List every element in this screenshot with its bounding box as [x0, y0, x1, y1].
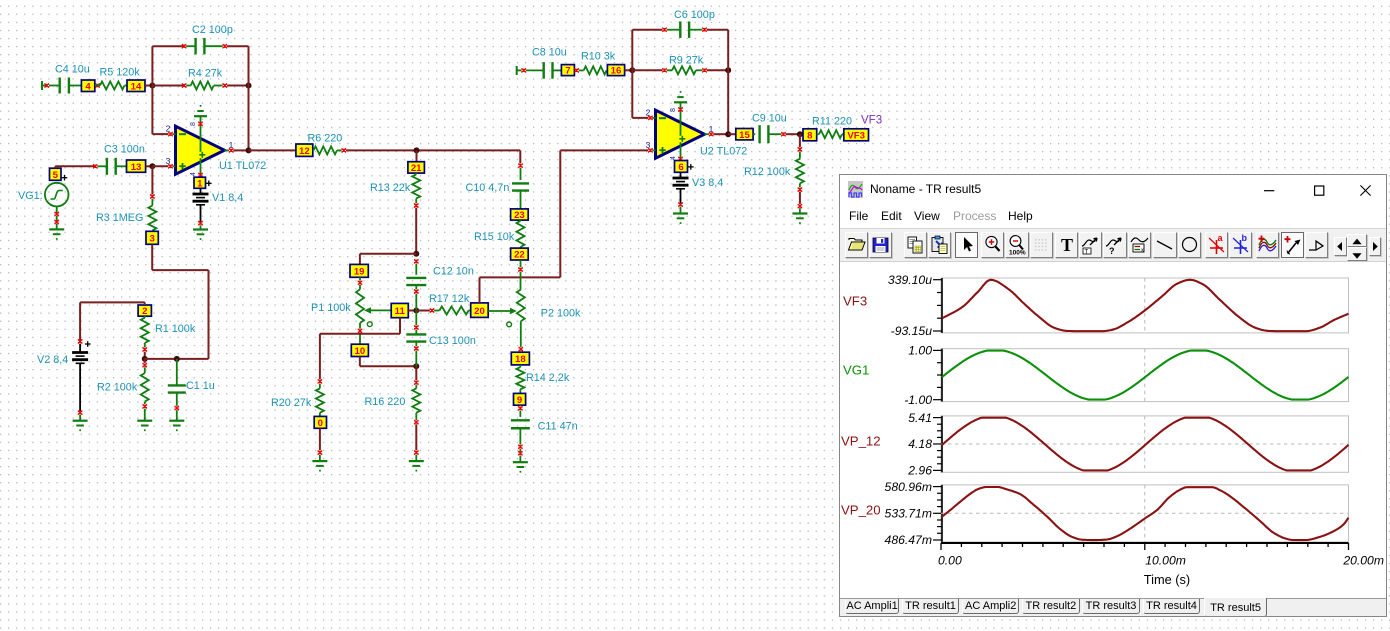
- svg-text:20: 20: [474, 306, 485, 317]
- wire junction H down to U2 output: [727, 70, 729, 134]
- curve VF3: [942, 279, 1348, 330]
- svg-text:R1 100k: R1 100k: [155, 323, 196, 335]
- toolbar cursor select button: [955, 232, 978, 258]
- x axis: [941, 543, 1348, 550]
- x axis title Time (s): [1144, 571, 1190, 586]
- wire C2 feedback loop left: [152, 46, 184, 85]
- capacitor C12 10n: [406, 259, 474, 310]
- svg-text:6: 6: [678, 162, 683, 173]
- svg-text:1: 1: [197, 178, 203, 189]
- U1 negative supply to node 1: [190, 162, 203, 177]
- svg-text:4: 4: [190, 172, 197, 176]
- svg-text:7: 7: [565, 66, 570, 77]
- svg-text:533.71m: 533.71m: [885, 506, 932, 520]
- toolbar probe button selected: [1281, 232, 1304, 258]
- svg-text:5: 5: [53, 170, 59, 181]
- svg-text:18: 18: [515, 354, 526, 365]
- svg-text:VG1: VG1: [843, 362, 869, 377]
- toolbar axis query button: [1103, 232, 1126, 258]
- capacitor C2 100p: [182, 24, 233, 54]
- wire junction C to U1 pin 3: [152, 165, 168, 167]
- svg-text:1.00: 1.00: [908, 343, 932, 357]
- resistor R5 120k: [95, 66, 141, 89]
- ground below V1: [193, 230, 208, 240]
- junction I: [797, 131, 803, 137]
- TR result window frame: [839, 174, 1387, 618]
- node 5: [50, 168, 68, 181]
- wire junction D to node 19: [360, 254, 416, 265]
- toolbar axis pen button: [1079, 232, 1102, 258]
- ground below C11: [513, 462, 528, 472]
- svg-text:C3 100n: C3 100n: [104, 144, 145, 156]
- toolbar prev curve button: [1334, 237, 1346, 256]
- curve VG1: [942, 350, 1348, 399]
- ground below V3: [673, 214, 688, 224]
- junction E: [413, 308, 419, 314]
- svg-text:339.10u: 339.10u: [888, 272, 932, 286]
- menu item View: [914, 209, 940, 223]
- resistor R3 1MEG: [96, 166, 156, 230]
- svg-text:20.00m: 20.00m: [1342, 553, 1384, 567]
- ground below R16: [409, 461, 424, 471]
- U1 pin 1 output: [225, 140, 249, 153]
- svg-text:R15 10k: R15 10k: [474, 231, 515, 243]
- svg-text:VF3: VF3: [847, 130, 865, 141]
- junction U2 output: [725, 131, 731, 137]
- node 6: [675, 161, 694, 174]
- node 4: [81, 80, 94, 92]
- ground below R12: [792, 214, 807, 224]
- signal name VF3: [843, 293, 867, 308]
- svg-text:VP_12: VP_12: [841, 433, 881, 448]
- curve VP_20: [942, 487, 1348, 540]
- node 19: [350, 264, 368, 277]
- svg-text:3: 3: [149, 233, 154, 244]
- svg-text:5.41: 5.41: [908, 410, 932, 424]
- svg-text:R6 220: R6 220: [308, 132, 343, 144]
- tab TR result4: [1143, 599, 1200, 615]
- signal name VG1: [843, 362, 869, 377]
- svg-text:U1 TL072: U1 TL072: [219, 160, 266, 172]
- wire R13 to junction D: [415, 208, 417, 254]
- svg-text:9: 9: [517, 395, 522, 406]
- tab TR result5 active: [1204, 598, 1267, 617]
- svg-text:R4 27k: R4 27k: [188, 67, 223, 79]
- svg-text:11: 11: [395, 306, 406, 317]
- svg-text:P1 100k: P1 100k: [311, 302, 351, 314]
- svg-text:580.96m: 580.96m: [885, 479, 932, 493]
- svg-text:R11 220: R11 220: [812, 115, 852, 127]
- battery V1 8,4: [193, 188, 244, 229]
- tab TR result2: [1022, 599, 1080, 615]
- capacitor C3 100n: [93, 144, 145, 175]
- node 3: [146, 231, 158, 244]
- wire node3 to R1 net: [152, 244, 208, 359]
- junction A: [149, 83, 155, 89]
- plot frame VP_12: [933, 415, 1348, 471]
- svg-text:R3 1MEG: R3 1MEG: [96, 212, 143, 224]
- toolbar grid button disabled: [1030, 232, 1053, 258]
- node 2: [138, 305, 151, 317]
- junction R1 R2: [142, 356, 148, 362]
- wire node2 to V2: [80, 302, 145, 341]
- svg-text:C1 1u: C1 1u: [186, 380, 215, 392]
- svg-text:8: 8: [670, 108, 677, 112]
- plot client area: [840, 262, 1386, 599]
- y axis labels VP_12: [907, 410, 932, 477]
- toolbar open folder button: [845, 232, 868, 258]
- wire C2 feedback loop right: [227, 46, 249, 85]
- toolbar cursor a button: [1205, 232, 1228, 258]
- potentiometer P1 100k: [311, 277, 391, 326]
- U2 pin 3 number: [646, 140, 656, 153]
- svg-text:C2 100p: C2 100p: [192, 24, 233, 36]
- junction F: [413, 363, 419, 369]
- resistor R9 27k: [662, 54, 706, 74]
- svg-text:-1.00: -1.00: [904, 392, 932, 406]
- toolbar spin up button: [1347, 234, 1367, 248]
- node 20: [471, 303, 489, 318]
- wire junction A down to U1 pin 2: [152, 86, 168, 135]
- capacitor C4 10u: [42, 64, 90, 94]
- svg-text:-93.15u: -93.15u: [891, 324, 933, 338]
- node 21: [408, 162, 425, 174]
- capacitor C9 10u: [752, 113, 787, 144]
- node 11: [391, 303, 408, 317]
- toolbar save button: [869, 232, 892, 258]
- window icon: [848, 181, 863, 198]
- node 13: [127, 160, 146, 173]
- junction C: [149, 163, 155, 169]
- label VF3 purple: [861, 115, 882, 127]
- resistor R12 100k: [744, 134, 804, 213]
- node 22: [511, 248, 529, 261]
- output node VF3: [844, 129, 869, 142]
- toolbar zoom 100% button: [1005, 232, 1028, 258]
- svg-text:C12 10n: C12 10n: [433, 266, 474, 278]
- wire U1 output to node 12: [249, 149, 296, 151]
- capacitor C13 100n: [406, 311, 476, 367]
- resistor R13 22k: [370, 173, 420, 208]
- toolbar curves button: [1256, 232, 1279, 258]
- wire node16 to junction G: [625, 69, 633, 71]
- node 18: [511, 352, 529, 365]
- resistor R11 220: [812, 115, 852, 138]
- svg-text:U2 TL072: U2 TL072: [700, 145, 747, 157]
- svg-text:R2 100k: R2 100k: [97, 382, 138, 394]
- svg-text:V1 8,4: V1 8,4: [212, 192, 243, 204]
- svg-text:14: 14: [131, 81, 142, 92]
- svg-text:R5 120k: R5 120k: [100, 66, 141, 78]
- svg-text:15: 15: [739, 130, 750, 141]
- wire junction B down to U1 output: [248, 86, 250, 151]
- wire R6 to C10 corner: [346, 149, 520, 151]
- wire C9 to junction I: [786, 133, 800, 135]
- battery V3 8,4: [673, 172, 724, 213]
- U2 pin 1 output: [705, 124, 729, 137]
- signal name VP_12: [841, 433, 881, 448]
- U1 pin 3 number: [166, 156, 176, 169]
- U2 negative supply to node 6: [670, 146, 683, 161]
- wire junction down to node 21: [416, 150, 418, 161]
- svg-text:16: 16: [611, 66, 622, 77]
- junction C1 top: [174, 356, 180, 362]
- node 15: [736, 129, 753, 141]
- y axis labels VF3: [888, 272, 932, 337]
- wire U2 output to node 15: [728, 133, 736, 135]
- y axis labels VP_20: [885, 479, 932, 546]
- potentiometer P2 100k: [488, 260, 581, 327]
- wire R1 bottom to C1: [145, 358, 177, 360]
- wire node13 to junction C: [146, 165, 153, 167]
- svg-text:R9 27k: R9 27k: [669, 54, 704, 66]
- resistor R15 10k: [474, 220, 525, 248]
- plot frame VG1: [933, 348, 1348, 401]
- capacitor C6 100p: [662, 9, 715, 38]
- svg-text:4: 4: [85, 81, 91, 92]
- svg-text:0: 0: [318, 418, 323, 429]
- junction G: [629, 67, 635, 73]
- node 1: [194, 177, 212, 189]
- svg-text:R17 12k: R17 12k: [429, 293, 470, 305]
- svg-text:C11 47n: C11 47n: [538, 421, 578, 433]
- ground below V2: [73, 421, 88, 431]
- window title bar: [840, 175, 1386, 205]
- svg-text:486.47m: 486.47m: [885, 533, 932, 547]
- window title text: [870, 182, 981, 196]
- toolbar zoom in button: [981, 232, 1004, 258]
- wire node10 to junction F: [360, 357, 416, 367]
- tab bar: [840, 598, 1386, 616]
- node 9: [514, 393, 526, 406]
- resistor R16 220: [365, 366, 421, 461]
- svg-text:R14 2,2k: R14 2,2k: [526, 372, 570, 384]
- U2 positive supply symbol: [670, 91, 687, 122]
- wire VG1 to C3: [55, 166, 95, 168]
- junction node 21 rail: [414, 147, 420, 153]
- svg-text:V2 8,4: V2 8,4: [37, 354, 68, 366]
- wire R4 to junction B: [227, 85, 249, 87]
- node 0: [314, 416, 326, 429]
- node 16: [607, 65, 624, 77]
- svg-text:4: 4: [670, 156, 677, 160]
- svg-text:VG1:: VG1:: [18, 190, 43, 202]
- svg-text:8: 8: [190, 122, 197, 126]
- node 8: [803, 129, 817, 142]
- ground below C1: [169, 421, 184, 431]
- tab AC Ampli2: [962, 599, 1020, 615]
- resistor R6 220: [308, 132, 347, 154]
- node 14: [127, 80, 145, 92]
- resistor R4 27k: [182, 67, 227, 89]
- resistor R2 100k: [97, 359, 149, 421]
- U2 pin 2 number: [646, 108, 656, 121]
- toolbar spin down button: [1347, 247, 1367, 261]
- svg-text:P2 100k: P2 100k: [541, 307, 581, 319]
- svg-text:2.96: 2.96: [907, 463, 932, 477]
- svg-text:2: 2: [142, 306, 147, 317]
- svg-text:22: 22: [514, 250, 525, 261]
- tab TR result3: [1082, 599, 1140, 615]
- toolbar paste button: [928, 232, 951, 258]
- capacitor C1 1u: [168, 359, 215, 421]
- wire P2 bottom to node 18: [519, 321, 523, 352]
- node 23: [511, 209, 529, 221]
- U1 pin 2 number: [166, 124, 176, 137]
- menu item Edit: [881, 209, 902, 223]
- toolbar ellipse tool button: [1178, 232, 1201, 258]
- U1 positive supply symbol: [190, 105, 207, 138]
- junction B: [246, 83, 252, 89]
- resistor R1 100k: [141, 316, 196, 359]
- ground below R2: [137, 421, 152, 431]
- svg-text:R12 100k: R12 100k: [744, 166, 791, 178]
- menu bar: [840, 204, 1386, 229]
- svg-text:0.00: 0.00: [938, 553, 962, 567]
- toolbar text tool button: [1055, 232, 1078, 258]
- tab TR result1: [902, 599, 960, 615]
- ground below R20: [312, 461, 327, 471]
- menu item Process: [953, 209, 996, 223]
- capacitor C10 4,7n: [466, 150, 530, 209]
- wire node20 up to U2 pin3 net: [480, 150, 649, 303]
- x axis labels: [938, 553, 1384, 567]
- svg-text:V3 8,4: V3 8,4: [692, 177, 723, 189]
- capacitor C11 47n: [511, 405, 578, 462]
- wire junction A to R4: [152, 85, 184, 87]
- resistor R17 12k: [416, 293, 470, 315]
- plot frame VP_20: [933, 484, 1348, 541]
- close button: [1360, 175, 1371, 204]
- node 12: [296, 144, 313, 157]
- junction D: [413, 251, 419, 257]
- toolbar: [840, 229, 1386, 262]
- battery V2 8,4: [37, 339, 91, 421]
- y axis labels VG1: [904, 343, 932, 406]
- signal name VP_20: [841, 502, 881, 517]
- ground below VG1: [49, 229, 64, 239]
- svg-text:23: 23: [514, 210, 525, 221]
- node 10: [351, 344, 368, 357]
- capacitor C8 10u: [517, 46, 567, 78]
- svg-text:C4 10u: C4 10u: [55, 64, 90, 76]
- toolbar cursor b button: [1229, 232, 1252, 258]
- svg-text:VF3: VF3: [843, 293, 867, 308]
- resistor R14 2,2k: [516, 365, 569, 394]
- menu item Help: [1008, 209, 1033, 223]
- toolbar legend button: [1128, 232, 1151, 258]
- maximize button: [1314, 175, 1325, 204]
- svg-text:4.18: 4.18: [908, 437, 932, 451]
- minimize button: [1264, 175, 1275, 204]
- toolbar next curve button: [1369, 237, 1381, 256]
- svg-text:C6 100p: C6 100p: [674, 9, 715, 21]
- svg-text:10: 10: [355, 346, 366, 357]
- svg-text:12: 12: [299, 146, 310, 157]
- menu item File: [849, 209, 868, 223]
- wire junction G to R9: [632, 69, 662, 71]
- op-amp U1 TL072: [176, 126, 267, 174]
- svg-text:10.00m: 10.00m: [1145, 553, 1186, 567]
- svg-text:C8 10u: C8 10u: [532, 46, 567, 58]
- svg-text:21: 21: [411, 163, 422, 174]
- wire node0 to ground: [318, 428, 322, 461]
- wire junction G down to U2 pin 2: [632, 70, 648, 118]
- svg-text:R13 22k: R13 22k: [370, 182, 411, 194]
- op-amp U2 TL072: [656, 110, 748, 158]
- svg-text:8: 8: [807, 130, 813, 141]
- toolbar copy button: [904, 232, 927, 258]
- curve VP_12: [942, 417, 1348, 470]
- wire C6 feedback loop: [632, 30, 728, 71]
- svg-text:C13 100n: C13 100n: [429, 335, 476, 347]
- wire R9 to junction H: [707, 69, 729, 71]
- svg-text:19: 19: [354, 266, 365, 277]
- plot frame VF3: [933, 278, 1348, 333]
- svg-text:R16 220: R16 220: [365, 396, 406, 408]
- svg-text:C9 10u: C9 10u: [752, 113, 787, 125]
- node 7: [561, 65, 574, 77]
- svg-text:R20 27k: R20 27k: [271, 397, 312, 409]
- resistor R20 27k: [271, 379, 324, 416]
- wire node11 to junction E: [408, 310, 416, 312]
- svg-text:R10 3k: R10 3k: [581, 50, 616, 62]
- resistor R10 3k: [574, 50, 615, 74]
- svg-text:13: 13: [131, 162, 142, 173]
- wire node14 to junction: [145, 85, 152, 87]
- svg-text:C10 4,7n: C10 4,7n: [466, 182, 510, 194]
- toolbar line tool button: [1153, 232, 1176, 258]
- toolbar slope marker button: [1305, 232, 1328, 258]
- wire P1 bottom to node 10: [358, 323, 362, 344]
- svg-text:VP_20: VP_20: [841, 502, 881, 517]
- wire node11 to R20: [320, 318, 400, 379]
- voltage generator VG1: [18, 183, 69, 230]
- junction U1 output: [246, 147, 252, 153]
- svg-text:Time (s): Time (s): [1144, 571, 1190, 586]
- junction H: [725, 67, 731, 73]
- svg-text:VF3: VF3: [861, 115, 882, 127]
- tab AC Ampli1: [845, 599, 899, 615]
